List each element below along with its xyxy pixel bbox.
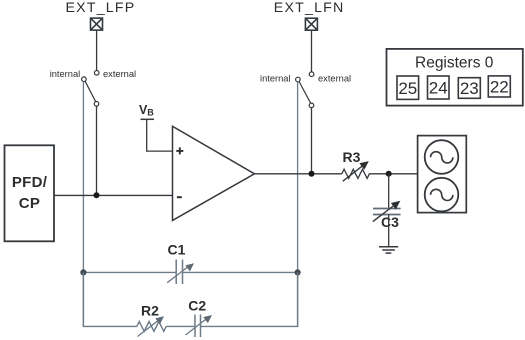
switch SW1 arm (85, 81, 96, 102)
pad EXT_LFP (bond pad symbol) (91, 18, 103, 30)
wire C1 right plate to node B (183, 271, 298, 273)
svg-text:25: 25 (398, 79, 417, 98)
op-amp U1 (173, 126, 255, 220)
wire PFD/CP output to op-amp inverting input (54, 194, 173, 196)
resistor R2 (variable) (137, 316, 166, 336)
wire node A to C1 left plate (83, 271, 176, 273)
wire C3 to ground (388, 215, 390, 247)
capacitor C2 (variable) (186, 315, 213, 338)
svg-text:R3: R3 (343, 149, 361, 165)
svg-text:EXT_LFP: EXT_LFP (66, 0, 136, 16)
block Registers 0 (387, 49, 523, 106)
svg-text:PFD/: PFD/ (12, 174, 48, 191)
svg-text:R2: R2 (141, 303, 159, 319)
junction node N1 (94, 192, 100, 198)
svg-text:22: 22 (490, 78, 509, 97)
switch SW2 arm (299, 82, 311, 104)
svg-text:Registers 0: Registers 0 (415, 54, 494, 71)
svg-text:C1: C1 (168, 242, 186, 258)
svg-text:external: external (103, 69, 136, 79)
svg-text:internal: internal (50, 69, 81, 79)
switch SW2 common contact (309, 103, 314, 108)
capacitor C3 (variable) (373, 201, 401, 222)
svg-text:external: external (318, 73, 351, 83)
wire node A down-left to R2 (83, 272, 136, 326)
block PFD/CP (5, 145, 55, 241)
svg-text:EXT_LFN: EXT_LFN (274, 0, 345, 16)
svg-text:23: 23 (460, 79, 479, 98)
switch SW2 internal contact (296, 77, 301, 82)
VB terminal bar (141, 118, 155, 120)
switch SW2 external contact (309, 72, 314, 77)
switch SW1 external contact (94, 71, 99, 76)
wire pad EXT_LFP to switch SW1 external contact (96, 30, 98, 70)
switch SW1 internal contact (82, 77, 87, 82)
svg-text:B: B (147, 108, 154, 118)
register bit 23 (458, 78, 480, 99)
svg-text:internal: internal (260, 74, 291, 84)
junction node N3 (R3 / C3 / VCO) (386, 171, 392, 177)
svg-text:C3: C3 (381, 214, 399, 230)
svg-text:24: 24 (429, 79, 448, 98)
capacitor C1 (variable) (167, 260, 194, 285)
ground (379, 247, 398, 253)
wire R2 to C2 left plate (166, 325, 195, 327)
junction node B (295, 269, 301, 275)
junction node A (80, 269, 86, 275)
wire VB to op-amp non-inverting input (147, 119, 173, 151)
switch SW1 common contact (94, 102, 99, 107)
register bit 22 (488, 76, 510, 97)
wire C2 right plate up to node B (201, 272, 298, 326)
block VCO (oscillators) (418, 136, 467, 213)
pad EXT_LFN (bond pad symbol) (305, 18, 317, 30)
junction node N2 (op-amp output / SW2) (309, 171, 315, 177)
register bit 25 (397, 76, 419, 99)
wire SW1 common to node N1 (96, 106, 98, 195)
wire internal path right (SW2 internal contact down to C1 node B) (297, 82, 299, 327)
wire op-amp output to R3 (255, 173, 342, 175)
resistor R3 (variable) (342, 165, 370, 182)
svg-text:C2: C2 (188, 298, 206, 314)
svg-text:CP: CP (19, 195, 40, 212)
wire N3 down to C3 (388, 174, 390, 209)
wire pad EXT_LFN to switch SW2 external contact (311, 30, 313, 72)
wire internal path left (SW1 internal contact down to C1 node A) (82, 81, 84, 326)
wire SW2 common to output node N2 (311, 108, 313, 174)
wire R3 to VCO (369, 173, 418, 175)
register bit 24 (428, 76, 450, 99)
